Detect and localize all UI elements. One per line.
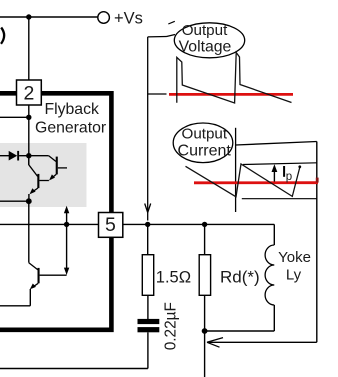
svg-text:Output: Output: [182, 22, 228, 39]
node bottom junction: [202, 328, 208, 334]
callout Output Voltage: [174, 22, 244, 58]
wire to resistor R1: [147, 224, 149, 254]
voltage zero line red: [169, 93, 293, 96]
wire pin 2 to output stage: [28, 105, 30, 165]
current direction double arrow: [64, 206, 69, 275]
node arrow line on pin5 wire: [64, 222, 69, 227]
svg-text:+Vs: +Vs: [114, 10, 143, 28]
inductor yoke Ly: [265, 224, 274, 331]
current zero line red: [194, 181, 318, 184]
capacitor C1: [138, 319, 160, 332]
wire bottom rail: [0, 368, 148, 370]
svg-text:5: 5: [105, 214, 116, 236]
node Rd top: [202, 222, 207, 227]
node junction below pin 2: [26, 115, 31, 120]
wire node below pin 2: [0, 116, 29, 118]
wire yoke bottom return: [205, 330, 275, 332]
resistor Rd: [199, 255, 210, 296]
current waveform frame left: [235, 128, 237, 212]
svg-text:Voltage: Voltage: [179, 38, 232, 55]
node diode / darlington junction: [26, 153, 31, 158]
current waveform peak line: [243, 163, 317, 165]
wire from +Vs node to pin 2: [28, 17, 30, 82]
callout Output Current: [173, 123, 233, 163]
transistor Q2: [29, 156, 49, 201]
wire pin5 external to yoke: [123, 223, 274, 225]
+Vs terminal: [98, 12, 110, 24]
current waveform sawtooth: [186, 164, 301, 197]
voltage waveform baseline tick: [148, 93, 167, 95]
wire Rd bottom: [204, 295, 206, 331]
svg-text:0.22µF: 0.22µF: [162, 302, 179, 350]
label Ip: [283, 166, 285, 177]
stray pen mark near ellipse: [168, 21, 175, 24]
svg-text:p: p: [286, 171, 292, 183]
node +Vs junction: [26, 14, 31, 19]
voltage waveform trace: [177, 53, 292, 104]
wire to resistor Rd: [204, 224, 206, 254]
resistor R1: [142, 255, 153, 296]
current waveform bottom line: [242, 198, 317, 200]
wire R1 to C1: [147, 295, 149, 319]
svg-text:Output: Output: [182, 126, 228, 143]
svg-text:Rd(*): Rd(*): [220, 268, 260, 287]
wire down to Q3: [28, 201, 30, 263]
label ) cropped: [1, 28, 4, 44]
output stage shaded region: [0, 143, 87, 207]
svg-text:1.5Ω: 1.5Ω: [156, 269, 191, 287]
pin 5: [99, 213, 123, 238]
transistor Q3: [29, 263, 67, 306]
node emitter junction: [26, 198, 32, 204]
svg-text:Flyback: Flyback: [44, 101, 99, 118]
node R1 top: [145, 222, 150, 227]
svg-text:Ly: Ly: [286, 266, 302, 283]
wire +Vs rail: [0, 16, 98, 18]
wire Q3 emitter out left: [0, 305, 30, 307]
voltage waveform leader line with arrow: [145, 37, 151, 221]
svg-text:Yoke: Yoke: [278, 249, 311, 266]
svg-text:Generator: Generator: [35, 119, 106, 136]
wire C1 to bottom rail: [147, 332, 149, 368]
transistor Q1: [29, 156, 67, 181]
svg-text:Current: Current: [178, 142, 232, 159]
svg-text:2: 2: [23, 83, 34, 105]
red line end blip: [316, 178, 319, 183]
diode D1: [0, 151, 29, 161]
pin 2: [17, 80, 42, 105]
wire current sense feedback: [207, 142, 317, 348]
wire pin5 internal: [0, 223, 99, 225]
wire left of emitter junction: [0, 200, 29, 202]
current waveform frame top: [236, 142, 317, 146]
wire junction down: [204, 331, 206, 377]
leader to Output Voltage ellipse: [148, 36, 167, 38]
IC body border: [0, 93, 111, 329]
arrow Ip: [272, 164, 278, 181]
